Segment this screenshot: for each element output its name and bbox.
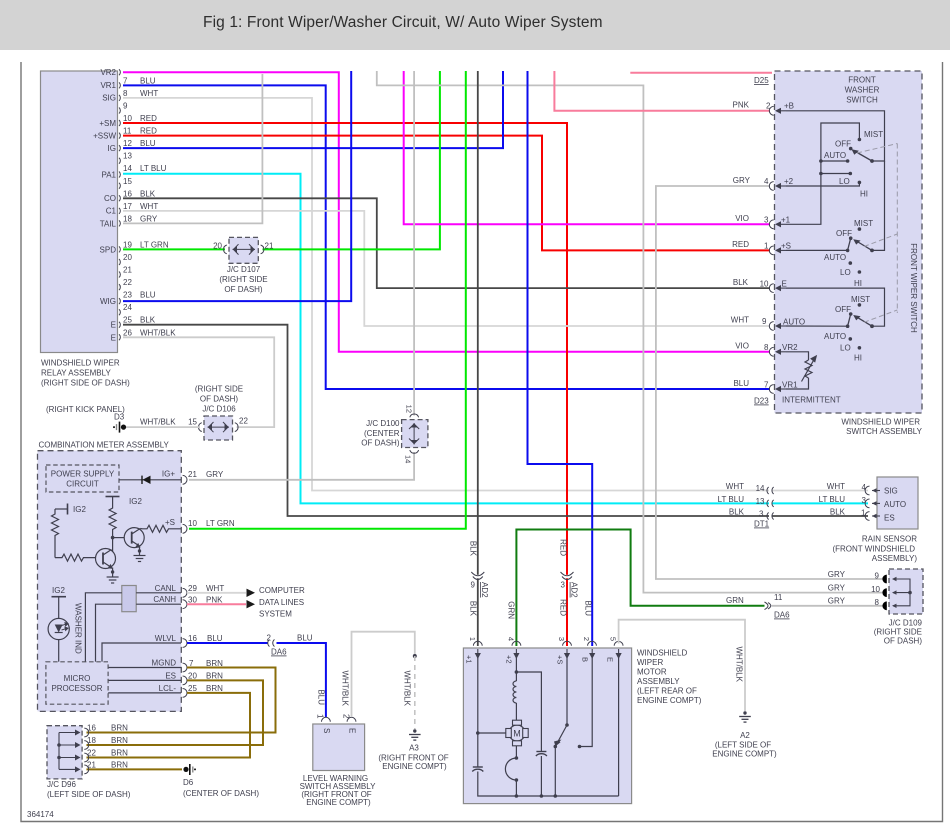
svg-text:16: 16 xyxy=(188,634,197,643)
svg-text:AUTO: AUTO xyxy=(824,332,846,341)
svg-text:ASSEMBLY: ASSEMBLY xyxy=(637,677,680,686)
brown wire J/C D96 pin21 to ground D6 xyxy=(87,768,183,770)
svg-text:GRY: GRY xyxy=(140,214,158,223)
svg-text:22: 22 xyxy=(87,749,96,758)
svg-text:GRY: GRY xyxy=(828,570,846,579)
wire SIG relay pin8 WHT to rain sensor xyxy=(123,98,769,491)
svg-text:+SM: +SM xyxy=(99,119,116,128)
svg-text:E: E xyxy=(348,728,357,733)
meter pin labels xyxy=(152,470,235,694)
svg-text:15: 15 xyxy=(188,418,197,427)
svg-text:GRY: GRY xyxy=(828,597,846,606)
svg-text:(RIGHT SIDE: (RIGHT SIDE xyxy=(874,628,922,637)
svg-text:WHT: WHT xyxy=(731,316,749,325)
svg-text:16: 16 xyxy=(123,189,132,198)
wire VR1 relay pin7 to switch pin7 (BLU) xyxy=(123,85,770,389)
svg-text:IG2: IG2 xyxy=(73,505,86,514)
svg-text:13: 13 xyxy=(756,497,765,506)
svg-text:BLU: BLU xyxy=(317,689,326,705)
cluster2 position labels xyxy=(824,219,873,288)
svg-text:D23: D23 xyxy=(754,397,769,406)
+2 branch xyxy=(515,658,517,681)
+B common feed line to wiper pivots xyxy=(786,111,885,161)
wire VR2 relay to switch pin8 (VIO) xyxy=(123,72,770,352)
connector AD2 on BLK wire xyxy=(469,541,490,617)
windshield wiper relay assembly box xyxy=(41,71,131,388)
svg-text:PNK: PNK xyxy=(206,596,223,605)
svg-text:20: 20 xyxy=(123,253,132,262)
svg-text:ASSEMBLY): ASSEMBLY) xyxy=(872,554,918,563)
svg-text:12: 12 xyxy=(405,405,414,413)
D109 row labels xyxy=(828,570,881,607)
svg-text:BLU: BLU xyxy=(733,379,749,388)
svg-text:13: 13 xyxy=(123,152,132,161)
svg-text:LO: LO xyxy=(840,344,851,353)
svg-text:22: 22 xyxy=(123,278,132,287)
Q2 emitter arrowhead xyxy=(135,543,140,548)
svg-text:A2: A2 xyxy=(740,731,750,740)
rain sensor pin arcs/arrows xyxy=(865,486,869,520)
connector DA6 (GRN/GRY row) xyxy=(765,602,771,610)
svg-text:RED: RED xyxy=(140,114,157,123)
svg-text:+2: +2 xyxy=(505,655,514,664)
svg-text:WHT: WHT xyxy=(206,584,224,593)
svg-text:OF DASH): OF DASH) xyxy=(361,439,400,448)
wire BLK from top through AD2 to motor pin1 xyxy=(477,71,479,646)
IG+ wire with diode xyxy=(119,476,181,484)
svg-text:GRY: GRY xyxy=(733,176,751,185)
svg-text:AUTO: AUTO xyxy=(884,500,906,509)
J/C D109 junction xyxy=(874,569,923,646)
svg-text:ES: ES xyxy=(165,671,176,680)
svg-text:WINDSHIELD WIPER: WINDSHIELD WIPER xyxy=(841,418,920,427)
Q1 ground xyxy=(107,568,119,584)
svg-text:2: 2 xyxy=(267,634,272,643)
svg-text:E: E xyxy=(606,657,615,662)
svg-text:(RIGHT SIDE: (RIGHT SIDE xyxy=(219,275,267,284)
svg-text:ES: ES xyxy=(884,514,895,523)
relay wire color labels xyxy=(140,76,176,337)
ground A2 xyxy=(739,711,751,722)
svg-text:(RIGHT SIDE: (RIGHT SIDE xyxy=(195,385,243,394)
svg-text:VIO: VIO xyxy=(735,214,749,223)
svg-text:SWITCH ASSEMBLY: SWITCH ASSEMBLY xyxy=(846,427,923,436)
DT1 row labels xyxy=(718,482,765,519)
svg-text:POWER SUPPLY: POWER SUPPLY xyxy=(51,470,115,479)
power supply circuit box xyxy=(46,465,119,492)
auto wiper contacts cluster3 xyxy=(846,303,874,350)
svg-text:SYSTEM: SYSTEM xyxy=(259,610,292,619)
svg-text:8: 8 xyxy=(764,343,769,352)
svg-text:RAIN SENSOR: RAIN SENSOR xyxy=(862,535,917,544)
switch pin names xyxy=(754,102,841,406)
brown wire MGND to J/C D96 pin16 xyxy=(87,668,276,733)
wire WIG relay pin23 BLU up to top xyxy=(123,71,351,301)
svg-text:BRN: BRN xyxy=(111,760,128,769)
svg-text:+1: +1 xyxy=(465,655,474,664)
svg-text:WLVL: WLVL xyxy=(155,634,177,643)
svg-text:GRN: GRN xyxy=(726,596,744,605)
svg-text:COMPUTER: COMPUTER xyxy=(259,586,305,595)
svg-text:OF DASH): OF DASH) xyxy=(200,395,239,404)
svg-text:BRN: BRN xyxy=(206,684,223,693)
svg-text:WHT/BLK: WHT/BLK xyxy=(735,646,744,682)
svg-text:AUTO: AUTO xyxy=(824,253,846,262)
svg-text:10: 10 xyxy=(123,114,132,123)
relay pin connector arcs xyxy=(119,69,120,340)
svg-text:10: 10 xyxy=(760,280,769,289)
Q2 ground xyxy=(134,547,146,562)
svg-text:RED: RED xyxy=(140,127,157,136)
motor under armature breaker arc xyxy=(515,744,517,758)
svg-text:22: 22 xyxy=(239,417,248,426)
svg-text:PROCESSOR: PROCESSOR xyxy=(51,684,102,693)
svg-text:(RIGHT SIDE OF DASH): (RIGHT SIDE OF DASH) xyxy=(41,379,130,388)
svg-text:16: 16 xyxy=(87,724,96,733)
svg-text:2: 2 xyxy=(766,102,771,111)
svg-text:MOTOR: MOTOR xyxy=(637,668,667,677)
svg-text:D3: D3 xyxy=(114,413,125,422)
svg-text:ENGINE COMPT): ENGINE COMPT) xyxy=(306,798,371,807)
svg-text:25: 25 xyxy=(188,684,197,693)
AUTO pin row to AUTO contact (cluster3) xyxy=(786,325,848,327)
svg-text:WASHER IND: WASHER IND xyxy=(74,603,83,654)
svg-text:FRONT WIPER SWITCH: FRONT WIPER SWITCH xyxy=(909,243,918,333)
svg-text:29: 29 xyxy=(188,584,197,593)
svg-text:4: 4 xyxy=(764,177,769,186)
level warning switch assembly box xyxy=(300,714,377,807)
svg-text:RED: RED xyxy=(559,599,568,616)
meter pin arcs xyxy=(183,475,187,697)
svg-text:WHT: WHT xyxy=(140,89,158,98)
svg-text:9: 9 xyxy=(123,102,128,111)
svg-text:BLK: BLK xyxy=(469,601,478,617)
wire C1 relay pin17 WHT to switch pin9 AUTO xyxy=(123,211,770,326)
svg-text:LT BLU: LT BLU xyxy=(819,495,846,504)
svg-text:364174: 364174 xyxy=(27,810,54,819)
Q2 transistor xyxy=(124,528,144,548)
base line to Q2 xyxy=(113,537,125,539)
svg-text:WASHER: WASHER xyxy=(845,86,880,95)
svg-text:AD2: AD2 xyxy=(480,582,489,598)
svg-text:BLK: BLK xyxy=(729,508,745,517)
J/C D96 junction xyxy=(47,724,131,800)
svg-text:DA6: DA6 xyxy=(774,611,790,620)
svg-text:23: 23 xyxy=(123,291,132,300)
washer indicator branch: IG2 terminal c xyxy=(48,597,69,662)
svg-text:10: 10 xyxy=(871,585,880,594)
svg-text:IG2: IG2 xyxy=(52,586,65,595)
wire LT GRN from top to meter +S pin10 xyxy=(189,71,466,529)
svg-text:LT BLU: LT BLU xyxy=(718,495,745,504)
J/C D107 junction xyxy=(213,237,274,294)
svg-text:J/C D100: J/C D100 xyxy=(366,419,400,428)
motor internal circuit xyxy=(472,658,618,796)
svg-text:+S: +S xyxy=(781,241,791,250)
MGND/ES/LCL wires from MP box xyxy=(108,668,181,693)
svg-text:M: M xyxy=(513,729,521,739)
svg-text:WHT/BLK: WHT/BLK xyxy=(140,328,176,337)
svg-text:21: 21 xyxy=(87,760,96,769)
svg-text:1: 1 xyxy=(861,509,866,518)
svg-text:HI: HI xyxy=(854,354,862,363)
svg-text:(LEFT SIDE OF: (LEFT SIDE OF xyxy=(715,741,771,750)
svg-text:9: 9 xyxy=(471,581,476,590)
E branch to bus xyxy=(618,658,620,796)
svg-text:+SSW: +SSW xyxy=(93,132,116,141)
svg-text:BLU: BLU xyxy=(584,600,593,616)
svg-text:WIPER: WIPER xyxy=(637,658,663,667)
svg-text:IG: IG xyxy=(108,144,116,153)
dashed WHT/BLK drop to ground A3 xyxy=(414,656,416,729)
svg-text:J/C D106: J/C D106 xyxy=(202,405,236,414)
svg-text:3: 3 xyxy=(764,215,769,224)
computer data lines system text xyxy=(259,586,305,619)
svg-text:GRN: GRN xyxy=(507,601,516,619)
svg-text:MIST: MIST xyxy=(864,130,883,139)
+S row to AUTO contact (cluster2) xyxy=(786,249,848,251)
svg-text:J/C D107: J/C D107 xyxy=(227,265,261,274)
IG2 terminal b xyxy=(106,496,120,498)
B contact xyxy=(580,658,593,747)
svg-text:D25: D25 xyxy=(754,76,769,85)
svg-text:+S: +S xyxy=(556,655,565,664)
J/C D106 junction xyxy=(188,385,248,441)
svg-text:BRN: BRN xyxy=(111,724,128,733)
wire PNK D25 washer feed xyxy=(630,72,772,74)
svg-text:25: 25 xyxy=(123,316,132,325)
svg-text:GRY: GRY xyxy=(828,584,846,593)
svg-text:J/C D96: J/C D96 xyxy=(47,780,76,789)
svg-text:8: 8 xyxy=(875,598,880,607)
svg-text:(LEFT REAR OF: (LEFT REAR OF xyxy=(637,687,697,696)
mechanical linkage dashed xyxy=(857,144,897,323)
combination meter assembly box xyxy=(38,441,182,712)
junction dots on +1 riser xyxy=(819,159,823,163)
svg-text:BLU: BLU xyxy=(207,634,223,643)
svg-text:OFF: OFF xyxy=(836,229,852,238)
svg-text:11: 11 xyxy=(123,127,132,136)
svg-text:12: 12 xyxy=(123,139,132,148)
svg-text:WHT/BLK: WHT/BLK xyxy=(403,670,412,706)
wire E relay pin25 BLK to rain sensor ES xyxy=(123,325,769,516)
svg-text:WHT/BLK: WHT/BLK xyxy=(341,670,350,706)
svg-text:MIST: MIST xyxy=(854,219,873,228)
svg-text:BLK: BLK xyxy=(140,189,156,198)
motor pin arcs at top xyxy=(473,641,623,645)
CANL WHT wire to computer data lines xyxy=(187,592,246,594)
svg-text:DATA LINES: DATA LINES xyxy=(259,598,304,607)
svg-text:DA6: DA6 xyxy=(271,648,287,657)
meter transistor circuit xyxy=(52,497,182,569)
svg-text:VIO: VIO xyxy=(735,342,749,351)
micro processor box xyxy=(46,662,108,704)
svg-text:LO: LO xyxy=(839,177,850,186)
+S park switch xyxy=(566,658,568,725)
+2 tee to capacitor2 xyxy=(516,672,541,752)
svg-text:1: 1 xyxy=(764,241,769,250)
svg-text:BLK: BLK xyxy=(733,278,749,287)
svg-text:14: 14 xyxy=(404,455,413,463)
svg-text:3: 3 xyxy=(561,581,566,590)
intermittent variable resistor VR2-VR1 xyxy=(786,352,816,389)
svg-text:OF DASH): OF DASH) xyxy=(224,285,263,294)
WHT/BLK wire level switch E to A3 junction xyxy=(352,632,415,717)
svg-text:+S: +S xyxy=(165,518,175,527)
svg-text:8: 8 xyxy=(123,89,128,98)
svg-text:20: 20 xyxy=(188,672,197,681)
svg-text:FRONT: FRONT xyxy=(848,76,876,85)
svg-text:30: 30 xyxy=(188,596,197,605)
svg-text:(LEFT SIDE OF DASH): (LEFT SIDE OF DASH) xyxy=(47,790,131,799)
washer switch contacts cluster1 xyxy=(846,138,874,185)
svg-text:9: 9 xyxy=(762,317,767,326)
svg-text:3: 3 xyxy=(759,510,764,519)
svg-text:VR2: VR2 xyxy=(100,68,116,77)
connector DA6 (WLVL row) xyxy=(268,640,275,647)
connector AD2 on RED wire xyxy=(559,539,579,616)
auto wiper arm cluster3 xyxy=(848,314,872,326)
svg-text:2: 2 xyxy=(582,637,591,641)
svg-text:PNK: PNK xyxy=(733,101,750,110)
svg-text:ENGINE COMPT): ENGINE COMPT) xyxy=(382,762,447,771)
svg-text:IG2: IG2 xyxy=(129,497,142,506)
svg-text:OF DASH): OF DASH) xyxy=(884,637,923,646)
Q2 collector to +S resistor xyxy=(140,525,181,532)
svg-text:WHT: WHT xyxy=(726,482,744,491)
svg-text:7: 7 xyxy=(764,381,769,390)
svg-text:3: 3 xyxy=(862,496,867,505)
svg-text:+2: +2 xyxy=(784,177,794,186)
svg-text:BRN: BRN xyxy=(206,672,223,681)
svg-text:BRN: BRN xyxy=(111,736,128,745)
Q1 transistor xyxy=(96,549,116,569)
field coil xyxy=(513,681,516,703)
svg-text:IG+: IG+ xyxy=(162,470,175,479)
CANH PNK wire to computer data lines xyxy=(187,603,246,605)
wire CO relay pin16 BLK to switch pin10 E xyxy=(123,198,770,288)
svg-text:14: 14 xyxy=(756,484,765,493)
svg-text:BLK: BLK xyxy=(469,541,478,557)
switch pin arcs and arrows xyxy=(769,106,773,393)
LED symbol inside washer ind xyxy=(55,625,63,633)
wire +SSW relay pin11 RED to switch pin1 +S xyxy=(123,136,770,251)
brown wire LCL- to J/C D96 pin22 xyxy=(87,693,251,758)
svg-text:RELAY ASSEMBLY: RELAY ASSEMBLY xyxy=(41,369,111,378)
rain sensor wires after DT1 xyxy=(772,491,869,517)
svg-text:C1: C1 xyxy=(106,207,117,216)
svg-text:GRY: GRY xyxy=(206,470,224,479)
relay pin names (inside box, right-aligned) xyxy=(93,68,116,342)
svg-text:BRN: BRN xyxy=(111,749,128,758)
svg-text:LT GRN: LT GRN xyxy=(206,519,235,528)
svg-text:E: E xyxy=(111,333,116,342)
windshield wiper motor assembly box xyxy=(463,648,701,804)
svg-text:LO: LO xyxy=(840,268,851,277)
wire GRY bus from top to J/C D109 pin10 xyxy=(377,71,887,593)
svg-text:BLU: BLU xyxy=(140,139,156,148)
svg-text:5: 5 xyxy=(609,637,618,641)
wire GRN motor pin4 +2 to DA6 xyxy=(516,530,764,647)
svg-text:WHT/BLK: WHT/BLK xyxy=(140,418,176,427)
svg-text:E: E xyxy=(111,321,116,330)
svg-text:MIST: MIST xyxy=(851,295,870,304)
svg-text:D6: D6 xyxy=(183,778,194,787)
wire IG relay pin12 BLU up to top xyxy=(123,71,503,148)
svg-text:+1: +1 xyxy=(781,215,791,224)
computer data lines arrows xyxy=(247,589,256,597)
svg-text:BLK: BLK xyxy=(830,508,846,517)
svg-text:WHT: WHT xyxy=(827,482,845,491)
+1 riser feeding MIST/AUTO/LO contacts xyxy=(786,123,859,224)
svg-text:INTERMITTENT: INTERMITTENT xyxy=(782,396,841,405)
svg-text:CANH: CANH xyxy=(153,595,176,604)
wire GRY switch pin4 +2 to J/C D109 pin9 xyxy=(656,186,887,579)
svg-text:CO: CO xyxy=(104,194,116,203)
svg-text:1: 1 xyxy=(316,714,325,719)
svg-text:RED: RED xyxy=(559,539,568,556)
svg-text:18: 18 xyxy=(87,736,96,745)
svg-text:SIG: SIG xyxy=(884,487,898,496)
connector DT1 arcs xyxy=(767,487,774,520)
svg-text:4: 4 xyxy=(507,637,516,641)
wire PNK from top to switch pin2 +B xyxy=(554,71,770,111)
svg-text:(CENTER OF DASH): (CENTER OF DASH) xyxy=(183,789,259,798)
svg-text:ENGINE COMPT): ENGINE COMPT) xyxy=(637,696,702,705)
cluster1 position labels xyxy=(824,130,883,199)
svg-text:7: 7 xyxy=(189,659,194,668)
svg-text:TAIL: TAIL xyxy=(100,219,117,228)
park switch arrowhead xyxy=(555,740,560,746)
svg-text:WINDSHIELD: WINDSHIELD xyxy=(637,649,687,658)
svg-text:19: 19 xyxy=(123,240,132,249)
wire GRY from top through J/C D100 to meter IG+ xyxy=(413,71,415,416)
svg-text:CANL: CANL xyxy=(155,584,177,593)
svg-text:1: 1 xyxy=(468,637,477,641)
svg-text:A3: A3 xyxy=(409,744,419,753)
svg-text:BLU: BLU xyxy=(297,634,313,643)
wire BLU from top to motor pin2 B xyxy=(528,71,593,646)
WHT/BLK wire motor E pin5 to ground A2 xyxy=(619,620,745,711)
ground A3 xyxy=(409,729,421,740)
resistor R-c vertical xyxy=(109,503,116,552)
svg-text:SIG: SIG xyxy=(102,94,116,103)
svg-text:21: 21 xyxy=(188,470,197,479)
rain sensor box xyxy=(832,477,918,563)
svg-text:LT GRN: LT GRN xyxy=(140,240,169,249)
svg-text:WINDSHIELD WIPER: WINDSHIELD WIPER xyxy=(41,359,120,368)
washer switch internal circuit xyxy=(786,111,885,326)
+1 branch with capacitor to bus xyxy=(477,658,479,767)
+1 to motor armature xyxy=(478,732,506,734)
svg-text:S: S xyxy=(322,728,331,733)
WLVL BLU wire to DA6 xyxy=(187,642,268,644)
wiper switch contacts cluster2 xyxy=(846,227,874,274)
+2 to HI contact xyxy=(786,182,859,186)
svg-text:BLU: BLU xyxy=(140,76,156,85)
svg-text:+B: +B xyxy=(784,102,794,111)
svg-text:CIRCUIT: CIRCUIT xyxy=(66,480,99,489)
E feed to cluster3 pivot xyxy=(786,288,885,326)
node dot xyxy=(111,536,115,540)
svg-text:MGND: MGND xyxy=(152,659,177,668)
svg-text:WHT: WHT xyxy=(140,202,158,211)
svg-text:J/C D109: J/C D109 xyxy=(889,619,923,628)
svg-text:AUTO: AUTO xyxy=(824,151,846,160)
CAN transceiver rect xyxy=(122,586,136,612)
svg-text:VR2: VR2 xyxy=(782,343,798,352)
svg-text:2: 2 xyxy=(342,714,351,719)
